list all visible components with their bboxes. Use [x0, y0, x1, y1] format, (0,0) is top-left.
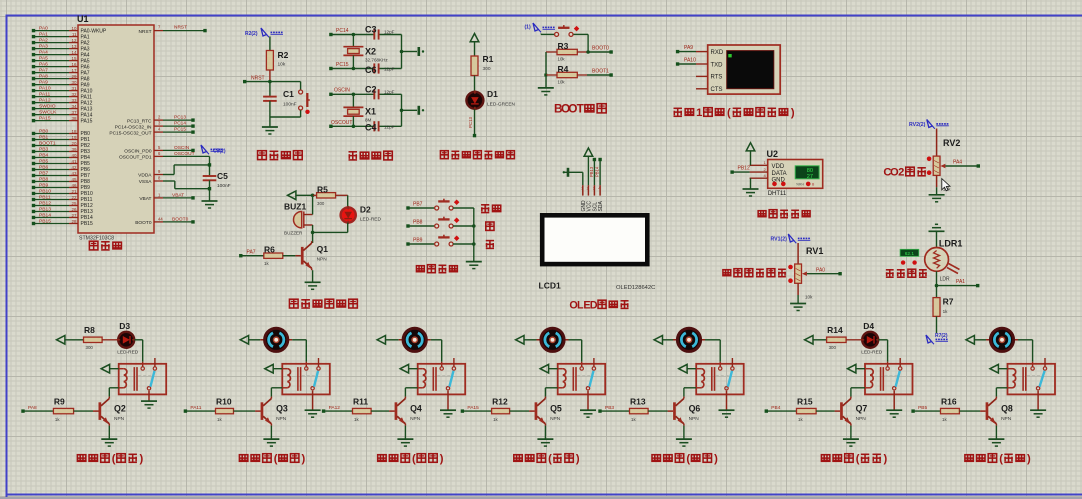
- U2 GND to ground: [743, 178, 759, 196]
- motor Q8: [986, 328, 1018, 351]
- svg-text:SWDIO: SWDIO: [39, 104, 56, 110]
- svg-text:PC13: PC13: [174, 115, 186, 121]
- svg-text:PA2: PA2: [39, 38, 48, 44]
- svg-text:PC13: PC13: [468, 116, 473, 128]
- power arrow Q8 coil: [990, 364, 1008, 373]
- svg-text:1k: 1k: [264, 261, 269, 266]
- svg-text:CTS: CTS: [711, 87, 723, 93]
- svg-text:C6: C6: [365, 65, 377, 75]
- svg-text:PB14: PB14: [39, 213, 51, 219]
- svg-text:1k: 1k: [943, 309, 949, 314]
- svg-text:VBAT: VBAT: [139, 196, 151, 202]
- svg-text:PC15: PC15: [174, 127, 186, 133]
- power arrow Q7 coil: [848, 364, 866, 373]
- svg-text:TXD: TXD: [711, 62, 724, 68]
- node PC15 wire: [329, 62, 401, 70]
- svg-text:OSCIN: OSCIN: [174, 145, 190, 151]
- svg-text:OSCOUT: OSCOUT: [174, 151, 195, 157]
- svg-text:25: 25: [71, 201, 77, 206]
- capacitor C6 12pF: [365, 63, 395, 74]
- svg-text:BOOT1: BOOT1: [592, 69, 609, 75]
- OLED pin header wires: [581, 185, 604, 211]
- ground RV2: [929, 195, 945, 202]
- svg-text:D: D: [590, 299, 598, 311]
- svg-text:45: 45: [71, 177, 77, 182]
- ground (bar) X2: [419, 47, 424, 56]
- resistor R3 10k: [546, 41, 587, 62]
- label 温湿度模块: [758, 210, 810, 218]
- svg-text:LED-RED: LED-RED: [360, 217, 382, 223]
- capacitor C3 12pF: [365, 25, 395, 40]
- svg-text:SWCLK: SWCLK: [39, 110, 57, 116]
- wire LED to relay: [878, 340, 887, 367]
- node PA11 wire: [184, 405, 216, 413]
- svg-text:D4: D4: [863, 321, 874, 331]
- svg-text:): ): [714, 453, 718, 465]
- resistor R9 1k: [53, 397, 93, 422]
- svg-text:12pF: 12pF: [384, 89, 395, 94]
- resistor R1 300: [471, 54, 494, 92]
- wire relay coil to Q7 collector: [851, 388, 865, 397]
- label 光照调节: [886, 269, 927, 277]
- svg-text:PA7: PA7: [247, 249, 256, 255]
- svg-text:PA4: PA4: [39, 50, 48, 56]
- wire motor to relay: [705, 340, 720, 367]
- svg-text:PB14: PB14: [595, 166, 600, 177]
- resistor R15 1k: [797, 397, 835, 422]
- ground Q5 emitter: [537, 426, 553, 447]
- label 继电器(制冷): [239, 453, 305, 465]
- svg-text:2: 2: [898, 167, 904, 179]
- svg-text:38: 38: [71, 116, 77, 121]
- svg-text:Q5: Q5: [550, 403, 562, 413]
- label 主芯片 (main chip): [89, 241, 121, 250]
- svg-text:PB7: PB7: [413, 201, 423, 207]
- svg-text:3: 3: [593, 187, 595, 191]
- svg-text:PB7: PB7: [39, 171, 49, 177]
- ground Q3 emitter: [263, 426, 279, 447]
- transistor Q5 NPN: [529, 397, 562, 426]
- svg-text:1k: 1k: [942, 417, 947, 422]
- svg-text:PB1: PB1: [39, 135, 49, 141]
- power arrow Q4 coil: [400, 364, 418, 373]
- svg-text:2: 2: [587, 187, 589, 191]
- svg-text:32.768KHz: 32.768KHz: [365, 58, 388, 63]
- svg-text:29: 29: [71, 74, 77, 79]
- svg-text:NRST: NRST: [138, 29, 151, 35]
- mouse cursor: [942, 179, 950, 191]
- svg-text:44: 44: [158, 216, 163, 221]
- svg-text:Q3: Q3: [276, 403, 288, 413]
- power arrow Q7 top: [805, 336, 827, 345]
- OLED display LCD1: [539, 215, 656, 291]
- node PA8 wire: [21, 405, 53, 413]
- svg-text:1k: 1k: [354, 417, 359, 422]
- svg-text:LED-RED: LED-RED: [861, 349, 883, 355]
- push button key PB9: [406, 235, 475, 246]
- svg-text:NPN: NPN: [317, 257, 328, 263]
- motor Q5: [537, 328, 569, 351]
- svg-text:Q4: Q4: [410, 403, 422, 413]
- svg-text:C5: C5: [217, 171, 228, 181]
- svg-text:R14: R14: [827, 325, 843, 335]
- svg-text:BOOT0: BOOT0: [172, 216, 189, 222]
- U1 OSCIN_PD0 / OSCOUT_PD1 pins 5,6: [119, 145, 210, 161]
- transistor Q4 NPN: [389, 397, 422, 426]
- power arrow Q5 top: [516, 336, 537, 345]
- svg-text:R16: R16: [941, 397, 957, 407]
- svg-text:40: 40: [71, 153, 77, 158]
- ground relay Q8 switch: [1030, 391, 1046, 418]
- svg-text:28: 28: [71, 219, 77, 224]
- ground below C5: [202, 201, 218, 208]
- svg-text:(: (: [412, 453, 416, 465]
- label 继电器(加湿): [378, 453, 444, 465]
- svg-text:33: 33: [71, 98, 77, 103]
- transistor Q1 NPN: [295, 232, 328, 270]
- svg-text:(: (: [999, 453, 1003, 465]
- power arrow Q4 top: [377, 336, 399, 345]
- svg-text:17: 17: [71, 68, 77, 73]
- potentiometer RV1: [788, 243, 842, 303]
- svg-text:(1): (1): [525, 25, 531, 31]
- svg-text:15: 15: [71, 56, 77, 61]
- node PA10 wire: [676, 58, 696, 66]
- wire relay coil to Q2 collector: [109, 388, 118, 397]
- LDR1 light sensor: [925, 239, 963, 283]
- svg-text:BOOT1: BOOT1: [39, 141, 56, 147]
- resistor R8 300: [84, 325, 103, 350]
- power arrow Q6 coil: [679, 364, 697, 373]
- svg-text:PC13_RTC: PC13_RTC: [127, 118, 152, 124]
- svg-text:R9: R9: [54, 397, 65, 407]
- virtual terminal 串口1 instrument: [696, 45, 780, 94]
- resistor R5 300: [313, 184, 348, 206]
- crystal X2 32.768KHz: [343, 35, 388, 69]
- svg-text:19: 19: [71, 135, 77, 140]
- ground Q4 emitter: [397, 426, 413, 447]
- crystal X1 8M: [343, 94, 376, 126]
- node PB4 wire: [765, 405, 797, 413]
- svg-text:C2: C2: [365, 84, 377, 94]
- svg-text:Q2: Q2: [114, 403, 126, 413]
- wire VSSA loop to C5 bottom: [139, 176, 212, 191]
- ground relay Q3 switch: [305, 391, 321, 418]
- ground Q2 emitter: [101, 426, 117, 447]
- svg-text:300: 300: [317, 201, 325, 206]
- svg-text:39: 39: [71, 147, 77, 152]
- capacitor C5 100nF: [203, 156, 231, 200]
- svg-text:PB10: PB10: [39, 189, 51, 195]
- resistor R16 1k: [941, 397, 981, 422]
- power arrow Q3 coil: [265, 364, 283, 373]
- U1 PC13/PC14/PC15 pins 2,3,4: [109, 115, 194, 137]
- relay Q5: [558, 358, 606, 394]
- svg-text:PA12: PA12: [329, 405, 341, 411]
- svg-text:LCD1: LCD1: [539, 281, 561, 291]
- svg-text:PA9: PA9: [684, 45, 693, 51]
- resistor R4 10k: [544, 52, 587, 85]
- resistor R11 1k: [353, 397, 390, 422]
- wire D1 to node PC13: [468, 109, 476, 137]
- U1 left pins PA0-PA15 (wires, terminals, pin numbers): [32, 26, 107, 125]
- svg-text:(: (: [112, 453, 116, 465]
- svg-text:PB4: PB4: [39, 153, 49, 159]
- ground relay Q2 switch: [141, 391, 157, 408]
- relay Q6: [696, 358, 744, 394]
- svg-text:PA3: PA3: [39, 44, 48, 50]
- svg-text:34: 34: [71, 104, 77, 109]
- svg-text:BOOT0: BOOT0: [592, 46, 609, 52]
- svg-text:PB9: PB9: [39, 183, 49, 189]
- node SCL wire (PB13): [589, 158, 596, 185]
- svg-text:11: 11: [72, 32, 77, 37]
- svg-text:1: 1: [581, 187, 583, 191]
- wire relay coil to Q5 collector: [545, 388, 557, 397]
- node PB5 wire: [911, 405, 940, 413]
- svg-text:NPN: NPN: [550, 416, 561, 422]
- svg-text:VDD: VDD: [772, 164, 785, 170]
- svg-text:PB8: PB8: [39, 177, 49, 183]
- svg-text:VSSA: VSSA: [139, 179, 153, 185]
- power arrow Q8 top: [966, 336, 986, 345]
- svg-text:42: 42: [71, 165, 77, 170]
- svg-text:NPN: NPN: [114, 416, 125, 422]
- svg-text:PA11: PA11: [39, 92, 51, 98]
- resistor R10 1k: [216, 397, 256, 422]
- svg-text:PA15: PA15: [81, 118, 93, 124]
- U1 NRST pin 7 wire to node NRST: [138, 25, 206, 35]
- svg-text:): ): [1027, 453, 1031, 465]
- svg-text:PB4: PB4: [771, 405, 780, 411]
- resistor R6 1k + node PA7: [239, 245, 295, 267]
- svg-text:R5: R5: [317, 184, 328, 194]
- svg-text:12pF: 12pF: [384, 124, 395, 129]
- power arrow Q3 top: [240, 336, 260, 345]
- svg-text:PA15: PA15: [39, 116, 51, 122]
- svg-text:1k: 1k: [217, 417, 222, 422]
- svg-text:R15: R15: [797, 397, 813, 407]
- svg-text:BUZ1: BUZ1: [284, 202, 306, 212]
- svg-text:21: 21: [71, 189, 77, 194]
- svg-text:R7: R7: [943, 297, 954, 307]
- relay Q8: [1008, 358, 1056, 394]
- svg-text:PA6: PA6: [39, 62, 48, 68]
- push button key PB8: [406, 217, 475, 228]
- svg-text:100nF: 100nF: [217, 183, 231, 189]
- svg-text:12: 12: [71, 38, 77, 43]
- node OSCOUT wire: [329, 120, 401, 128]
- X2 right rail to ground: [400, 35, 417, 69]
- node R7(2) actuator marker: [926, 333, 948, 344]
- svg-text:BOOT0: BOOT0: [135, 220, 152, 226]
- ground RV1: [790, 304, 806, 311]
- node R2(2) actuator marker: [245, 28, 283, 37]
- svg-text:OSCIN: OSCIN: [334, 88, 350, 94]
- svg-text:PB6: PB6: [39, 165, 49, 171]
- svg-text:): ): [576, 453, 580, 465]
- relay Q7: [865, 358, 913, 394]
- label 继电器(光照): [821, 453, 887, 465]
- svg-text:PA8: PA8: [28, 405, 37, 411]
- svg-text:62.1: 62.1: [905, 251, 915, 257]
- label 继电器(风扇): [965, 453, 1031, 465]
- potentiometer RV2: [927, 129, 980, 195]
- svg-text:PB12: PB12: [39, 201, 51, 207]
- svg-text:20: 20: [71, 141, 77, 146]
- LDR light level meter: [900, 249, 919, 264]
- svg-text:31: 31: [71, 86, 77, 91]
- svg-text:NPN: NPN: [410, 416, 421, 422]
- svg-text:NPN: NPN: [1001, 416, 1012, 422]
- push button key PB7: [406, 199, 474, 210]
- svg-text:PB5: PB5: [918, 405, 927, 411]
- svg-text:): ): [440, 453, 444, 465]
- svg-text:PA5: PA5: [39, 56, 48, 62]
- label 土壤湿度调节: [723, 269, 786, 277]
- svg-text:18: 18: [71, 129, 77, 134]
- svg-text:PB13: PB13: [39, 207, 51, 213]
- svg-text:12pF: 12pF: [384, 67, 395, 72]
- wire relay coil to Q4 collector: [405, 388, 417, 397]
- node PA15 wire: [461, 405, 492, 413]
- sensor U2 DHT11: [750, 149, 823, 197]
- power arrow for D1: [470, 34, 479, 57]
- svg-text:PB13: PB13: [589, 166, 594, 177]
- svg-text:R1: R1: [483, 54, 494, 64]
- relay Q2: [119, 358, 167, 394]
- svg-text:PA11: PA11: [190, 405, 201, 411]
- ground below R3/R4 rail: [538, 75, 554, 95]
- wire VDDA loop to C5: [138, 163, 211, 179]
- svg-text:41: 41: [71, 159, 77, 164]
- svg-text:LDR: LDR: [940, 277, 950, 283]
- svg-text:RV1: RV1: [806, 246, 823, 256]
- svg-text:NRST: NRST: [251, 76, 265, 82]
- svg-text:U2: U2: [767, 149, 779, 159]
- svg-text:27: 27: [71, 213, 77, 218]
- svg-text:OSCOUT_PD1: OSCOUT_PD1: [119, 155, 152, 161]
- svg-text:C1: C1: [283, 89, 294, 99]
- resistor R12 1k: [492, 397, 529, 422]
- relay Q3: [282, 358, 330, 394]
- ground relay Q4 switch: [440, 391, 456, 418]
- svg-text:PB11: PB11: [39, 195, 51, 201]
- svg-text:10k: 10k: [558, 57, 566, 62]
- svg-text:R7(2): R7(2): [935, 333, 948, 339]
- svg-text:): ): [301, 453, 305, 465]
- labels 设置/加/减: [481, 204, 501, 248]
- wire relay coil to Q6 collector: [684, 388, 696, 397]
- node PB12 wire: [730, 166, 750, 174]
- svg-text:(: (: [548, 453, 552, 465]
- U2 VDD power arrow: [746, 143, 755, 166]
- svg-text:OSCIN_PD0: OSCIN_PD0: [124, 149, 152, 155]
- svg-text:PB0: PB0: [39, 129, 49, 135]
- svg-text:U1: U1: [77, 14, 89, 24]
- label 继电器(除湿): [514, 453, 580, 465]
- ground Q1 emitter: [305, 270, 321, 289]
- LED D3 LED-RED: [102, 321, 139, 355]
- node PA1 wire: [935, 271, 980, 287]
- resistor R7 1k: [933, 286, 954, 333]
- node PA9 wire: [676, 45, 696, 53]
- U1 STM32F103C8 main MCU: [77, 14, 154, 242]
- power arrow alarm: [288, 191, 315, 200]
- svg-text:PA4: PA4: [953, 160, 962, 166]
- ground Q8 emitter: [988, 426, 1004, 447]
- svg-text:LED-RED: LED-RED: [117, 349, 139, 355]
- svg-text:R11: R11: [353, 397, 368, 407]
- label 程序运行指示灯 (run indicator): [440, 151, 514, 159]
- svg-text:43: 43: [71, 171, 77, 176]
- svg-text:RV1(2): RV1(2): [771, 237, 788, 243]
- svg-text:R3: R3: [558, 41, 569, 51]
- svg-text:46: 46: [71, 183, 77, 188]
- node RV2(2) actuator marker: [909, 120, 949, 129]
- svg-text:PA0: PA0: [39, 26, 48, 32]
- svg-text:300: 300: [483, 66, 491, 72]
- transistor Q6 NPN: [668, 397, 701, 426]
- label 串口1窗口（模拟手机端）: [674, 107, 795, 119]
- svg-text:10: 10: [71, 26, 77, 31]
- svg-text:D1: D1: [487, 89, 498, 99]
- svg-text:R8: R8: [84, 325, 95, 335]
- capacitor C1 100nF: [263, 82, 297, 117]
- U1 left pins PB0-PB15 (wires, terminals, pin numbers): [32, 129, 93, 228]
- node C5(2) actuator marker: [201, 145, 226, 155]
- buzzer BUZ1: [284, 195, 314, 235]
- svg-text:%RH: %RH: [796, 183, 804, 187]
- svg-text:VDDA: VDDA: [138, 173, 152, 179]
- svg-text:1k: 1k: [631, 417, 636, 422]
- svg-text:10k: 10k: [278, 62, 286, 68]
- node NRST wire: [243, 76, 301, 84]
- node OSCIN wire: [329, 88, 401, 97]
- svg-text:Q7: Q7: [856, 403, 868, 413]
- node (1) actuator marker: [525, 23, 556, 32]
- svg-text:PB15: PB15: [81, 221, 93, 227]
- label 复位电路 (reset circuit): [258, 151, 303, 160]
- svg-text:T: T: [577, 102, 585, 116]
- svg-text:10k: 10k: [805, 295, 813, 300]
- node SDA wire (PB14): [595, 158, 602, 185]
- motor Q4: [399, 328, 431, 351]
- wire relay coil to Q3 collector: [271, 388, 282, 397]
- svg-text:PC15-OSC32_OUT: PC15-OSC32_OUT: [109, 130, 151, 136]
- node PB3 wire: [598, 405, 629, 413]
- svg-text:R2: R2: [278, 50, 289, 60]
- svg-text:PB15: PB15: [39, 219, 51, 225]
- svg-text:SDA: SDA: [598, 201, 604, 212]
- svg-text:4: 4: [598, 187, 600, 191]
- svg-text:PC14: PC14: [174, 121, 186, 127]
- svg-text:R2(2): R2(2): [245, 31, 258, 37]
- svg-text:RV2(2): RV2(2): [909, 122, 926, 128]
- svg-text:30: 30: [71, 80, 77, 85]
- resistor R13 1k: [630, 397, 668, 422]
- svg-text:): ): [791, 107, 795, 119]
- svg-text:PA12: PA12: [39, 98, 51, 104]
- ground Q6 emitter: [676, 426, 692, 447]
- svg-text:DHT11: DHT11: [768, 191, 787, 197]
- OLED GND wire to bar ground: [563, 168, 583, 185]
- wire LED to relay: [134, 340, 143, 367]
- svg-text:LED-GREEN: LED-GREEN: [487, 102, 516, 108]
- ground below C1: [262, 117, 278, 134]
- power arrow Q6 top: [654, 336, 673, 345]
- ground Q7 emitter: [843, 426, 859, 447]
